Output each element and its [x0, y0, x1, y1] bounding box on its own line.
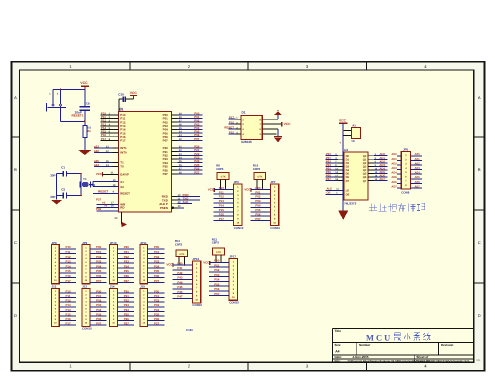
svg-text:P14: P14: [219, 204, 225, 208]
svg-text:P17: P17: [229, 116, 235, 120]
svg-text:p34: p34: [94, 163, 99, 167]
svg-text:V6: V6: [104, 205, 108, 208]
svg-text:P36: P36: [154, 317, 160, 321]
svg-text:P23: P23: [124, 260, 130, 264]
svg-text:P11: P11: [66, 294, 71, 298]
svg-text:P01: P01: [96, 250, 102, 254]
svg-text:D6: D6: [346, 176, 350, 179]
svg-text:RESET1: RESET1: [72, 114, 84, 118]
svg-text:U1: U1: [119, 108, 123, 112]
svg-text:A04: A04: [415, 171, 421, 175]
svg-text:P27: P27: [124, 279, 130, 283]
svg-text:Mk.: Mk.: [477, 359, 482, 362]
svg-text:P32: P32: [154, 299, 160, 303]
svg-text:D7: D7: [346, 180, 350, 183]
svg-text:30P: 30P: [50, 195, 55, 199]
svg-text:P00: P00: [96, 245, 102, 249]
svg-text:P11: P11: [66, 250, 71, 254]
svg-text:P24: P24: [124, 308, 130, 312]
svg-text:D4: D4: [346, 169, 350, 172]
svg-text:P25: P25: [124, 312, 130, 316]
svg-text:P06: P06: [96, 317, 102, 321]
svg-text:P13: P13: [66, 303, 72, 307]
svg-text:C: C: [14, 240, 17, 245]
svg-text:4.7K: 4.7K: [257, 176, 262, 179]
svg-text:P04: P04: [255, 204, 261, 208]
svg-text:C: C: [478, 240, 481, 245]
svg-text:D: D: [478, 313, 481, 318]
svg-text:P34: P34: [154, 308, 160, 312]
svg-text:P43: P43: [177, 276, 183, 280]
svg-text:P10: P10: [219, 186, 225, 190]
svg-text:P37: P37: [154, 322, 160, 326]
svg-text:P30: P30: [154, 289, 160, 293]
svg-text:P15: P15: [219, 208, 225, 212]
svg-text:P30: P30: [154, 245, 160, 249]
svg-text:P25: P25: [124, 269, 130, 273]
svg-text:P36: P36: [154, 274, 160, 278]
svg-text:B: B: [14, 167, 17, 172]
svg-text:File:: File:: [335, 359, 341, 363]
svg-text:A4: A4: [335, 350, 339, 354]
svg-text:RESET: RESET: [224, 125, 234, 129]
svg-text:U3: U3: [344, 148, 348, 152]
svg-text:P31: P31: [154, 294, 160, 298]
svg-text:P21: P21: [124, 250, 130, 254]
svg-text:A03: A03: [415, 166, 421, 170]
svg-text:D3: D3: [346, 166, 350, 169]
svg-text:Y1: Y1: [83, 177, 87, 181]
svg-text:A: A: [478, 95, 481, 100]
svg-text:P53: P53: [214, 273, 220, 277]
svg-text:D1: D1: [346, 158, 350, 161]
svg-text:Number: Number: [359, 343, 371, 347]
svg-text:D:\Program Files\Design Explor: D:\Program Files\Design Explorer 99 SE\E…: [348, 360, 470, 363]
svg-text:C8P3: C8P3: [175, 242, 183, 246]
svg-text:CON10: CON10: [229, 301, 239, 305]
svg-text:P17: P17: [120, 139, 126, 143]
svg-text:M C U: M C U: [366, 333, 390, 342]
svg-text:OE: OE: [346, 193, 350, 196]
svg-text:EA/VP: EA/VP: [120, 173, 129, 177]
svg-text:p33: p33: [94, 145, 99, 149]
svg-text:P50: P50: [214, 259, 220, 263]
svg-text:VCC: VCC: [130, 91, 138, 95]
svg-text:P32: P32: [154, 255, 160, 259]
svg-text:CON10: CON10: [234, 226, 244, 230]
svg-text:C8: C8: [86, 101, 90, 105]
svg-text:A: A: [14, 95, 17, 100]
svg-text:P24: P24: [124, 264, 130, 268]
svg-text:T0: T0: [120, 165, 124, 169]
svg-text:Q0: Q0: [363, 155, 367, 158]
svg-text:P40: P40: [177, 261, 183, 265]
svg-text:AD7: AD7: [379, 177, 385, 181]
svg-text:VCC: VCC: [339, 119, 347, 123]
svg-text:P27: P27: [124, 322, 130, 326]
svg-text:CON10: CON10: [270, 226, 280, 230]
svg-text:P57: P57: [214, 292, 220, 296]
svg-text:P44: P44: [177, 280, 183, 284]
svg-text:D: D: [14, 313, 17, 318]
svg-text:A1: A1: [352, 123, 356, 127]
svg-text:AD6: AD6: [391, 181, 397, 184]
svg-text:RESET: RESET: [120, 192, 130, 196]
svg-text:P45: P45: [177, 285, 183, 289]
svg-text:C181: C181: [186, 328, 193, 332]
svg-text:30P: 30P: [50, 173, 55, 177]
svg-text:P02: P02: [255, 195, 261, 199]
svg-text:P52: P52: [214, 268, 220, 272]
svg-text:4-Nov-2005: 4-Nov-2005: [353, 355, 369, 359]
svg-text:P16: P16: [219, 213, 225, 217]
svg-text:P02: P02: [96, 255, 102, 259]
svg-text:C2: C2: [61, 187, 65, 191]
svg-text:4.7K: 4.7K: [216, 251, 221, 254]
svg-text:Q4: Q4: [363, 169, 367, 172]
svg-text:C8P3: C8P3: [253, 167, 261, 171]
svg-text:P35: P35: [154, 312, 160, 316]
svg-text:A01: A01: [415, 157, 421, 161]
svg-text:AD1: AD1: [391, 158, 397, 161]
svg-text:CON10: CON10: [192, 303, 202, 307]
svg-text:C8P3: C8P3: [212, 241, 220, 245]
svg-text:PSEN: PSEN: [160, 206, 168, 210]
svg-text:C1: C1: [61, 166, 65, 170]
svg-text:P03: P03: [96, 260, 102, 264]
svg-text:B: B: [478, 167, 481, 172]
svg-text:P11: P11: [219, 190, 224, 194]
svg-text:P27: P27: [163, 172, 169, 176]
svg-text:Size: Size: [335, 343, 341, 347]
svg-text:P34: P34: [154, 264, 160, 268]
svg-text:P21: P21: [124, 294, 130, 298]
svg-text:P26: P26: [124, 274, 130, 278]
svg-text:P54: P54: [214, 278, 220, 282]
svg-text:74LS373: 74LS373: [344, 202, 357, 206]
svg-text:P14: P14: [66, 264, 72, 268]
svg-text:X25045: X25045: [241, 140, 252, 144]
svg-text:D5: D5: [346, 173, 350, 176]
svg-text:Drawn by:: Drawn by:: [416, 359, 431, 363]
svg-text:P13: P13: [219, 199, 225, 203]
svg-text:P12: P12: [66, 299, 72, 303]
svg-text:Q6: Q6: [363, 176, 367, 179]
svg-text:P16: P16: [66, 317, 72, 321]
svg-text:Q1: Q1: [363, 158, 367, 161]
svg-text:RESET: RESET: [98, 190, 108, 194]
svg-text:P15: P15: [66, 312, 72, 316]
svg-text:P22: P22: [124, 255, 130, 259]
svg-text:P01: P01: [255, 190, 261, 194]
svg-text:P07: P07: [96, 322, 102, 326]
svg-text:D1: D1: [242, 111, 246, 115]
svg-text:AD2: AD2: [391, 162, 397, 165]
svg-text:P51: P51: [214, 263, 220, 267]
svg-text:JP17: JP17: [229, 255, 236, 259]
svg-text:P06: P06: [255, 213, 261, 217]
svg-text:P16: P16: [66, 274, 72, 278]
svg-text:AD7: AD7: [391, 185, 397, 188]
svg-text:P10: P10: [66, 245, 72, 249]
svg-text:X1: X1: [120, 180, 124, 184]
svg-text:P26: P26: [124, 317, 130, 321]
svg-text:P16: P16: [229, 121, 235, 125]
svg-text:P42: P42: [177, 271, 183, 275]
svg-text:A00: A00: [415, 152, 421, 156]
svg-text:INT0: INT0: [120, 151, 127, 155]
svg-text:P31: P31: [154, 250, 160, 254]
svg-text:JP16: JP16: [192, 257, 199, 261]
svg-text:P07: P07: [163, 139, 169, 143]
svg-text:INT1: INT1: [120, 146, 127, 150]
svg-text:VCC: VCC: [284, 122, 292, 126]
svg-text:Q3: Q3: [363, 166, 367, 169]
svg-text:P13: P13: [66, 260, 72, 264]
svg-text:JP6: JP6: [234, 180, 240, 184]
svg-text:P03: P03: [255, 199, 261, 203]
svg-text:Q7: Q7: [363, 180, 367, 183]
svg-text:P03: P03: [96, 303, 102, 307]
svg-text:Revision: Revision: [441, 343, 454, 347]
svg-text:Q5: Q5: [363, 173, 367, 176]
svg-text:P02: P02: [96, 299, 102, 303]
svg-text:P04: P04: [96, 308, 102, 312]
svg-text:P15: P15: [229, 130, 235, 134]
svg-text:Title: Title: [335, 329, 342, 333]
svg-text:P15: P15: [66, 269, 72, 273]
svg-text:1K: 1K: [351, 139, 355, 143]
svg-text:P12: P12: [66, 255, 72, 259]
svg-text:P12: P12: [219, 195, 225, 199]
svg-text:P17: P17: [101, 137, 107, 141]
svg-text:C8P3: C8P3: [216, 167, 224, 171]
svg-text:P23: P23: [124, 303, 130, 307]
svg-text:AD5: AD5: [391, 176, 397, 179]
svg-text:P05: P05: [96, 312, 102, 316]
svg-text:P22: P22: [124, 299, 130, 303]
svg-text:VCC: VCC: [80, 81, 88, 85]
svg-text:Q2: Q2: [363, 162, 367, 165]
svg-text:P07: P07: [255, 217, 261, 221]
svg-text:A07: A07: [415, 184, 421, 188]
svg-text:OE: OE: [327, 191, 331, 195]
svg-text:4.7K: 4.7K: [220, 176, 225, 179]
svg-text:P56: P56: [214, 287, 220, 291]
svg-text:P33: P33: [154, 303, 160, 307]
svg-text:P17: P17: [66, 279, 72, 283]
svg-text:P35: P35: [154, 269, 160, 273]
svg-text:R6: R6: [87, 130, 91, 133]
svg-text:CON10: CON10: [82, 327, 92, 331]
svg-text:X2: X2: [120, 185, 124, 189]
svg-text:P10: P10: [66, 289, 72, 293]
svg-text:D0: D0: [346, 155, 350, 158]
svg-text:P07: P07: [326, 177, 331, 181]
svg-text:P01: P01: [96, 294, 102, 298]
svg-text:P55: P55: [214, 282, 220, 286]
svg-text:P05: P05: [255, 208, 261, 212]
svg-text:AD0: AD0: [391, 153, 397, 156]
svg-text:P05: P05: [96, 269, 102, 273]
svg-text:AD3: AD3: [391, 167, 397, 170]
svg-text:C10: C10: [118, 93, 124, 97]
svg-text:p32: p32: [94, 149, 99, 153]
svg-text:CON8: CON8: [401, 191, 409, 195]
svg-text:A06: A06: [415, 180, 421, 184]
svg-text:P17: P17: [219, 217, 225, 221]
svg-text:LE: LE: [346, 189, 350, 192]
svg-text:P20: P20: [124, 245, 130, 249]
svg-text:P00: P00: [255, 186, 261, 190]
svg-text:AD4: AD4: [391, 172, 397, 175]
svg-text:P41: P41: [177, 266, 183, 270]
svg-text:P46: P46: [177, 290, 183, 294]
svg-text:P17: P17: [66, 322, 72, 326]
svg-text:4.7K: 4.7K: [179, 253, 184, 256]
svg-text:5.6: 5.6: [87, 126, 91, 129]
svg-text:D2: D2: [346, 162, 350, 165]
svg-text:P20: P20: [124, 289, 130, 293]
svg-text:P37: P37: [96, 197, 102, 201]
svg-text:P47: P47: [177, 295, 183, 299]
svg-text:P37: P37: [154, 279, 160, 283]
svg-text:P27: P27: [194, 170, 200, 174]
svg-text:P14: P14: [66, 308, 72, 312]
svg-text:P33: P33: [154, 260, 160, 264]
svg-text:ALE: ALE: [183, 200, 189, 204]
svg-text:P07: P07: [96, 279, 102, 283]
svg-text:P06: P06: [96, 274, 102, 278]
svg-text:A05: A05: [415, 175, 421, 179]
svg-text:JP7: JP7: [270, 180, 276, 184]
svg-text:P04: P04: [96, 264, 102, 268]
svg-text:P07: P07: [194, 137, 200, 141]
svg-text:A02: A02: [415, 161, 421, 165]
svg-text:RD: RD: [120, 206, 124, 210]
svg-text:P00: P00: [96, 289, 102, 293]
